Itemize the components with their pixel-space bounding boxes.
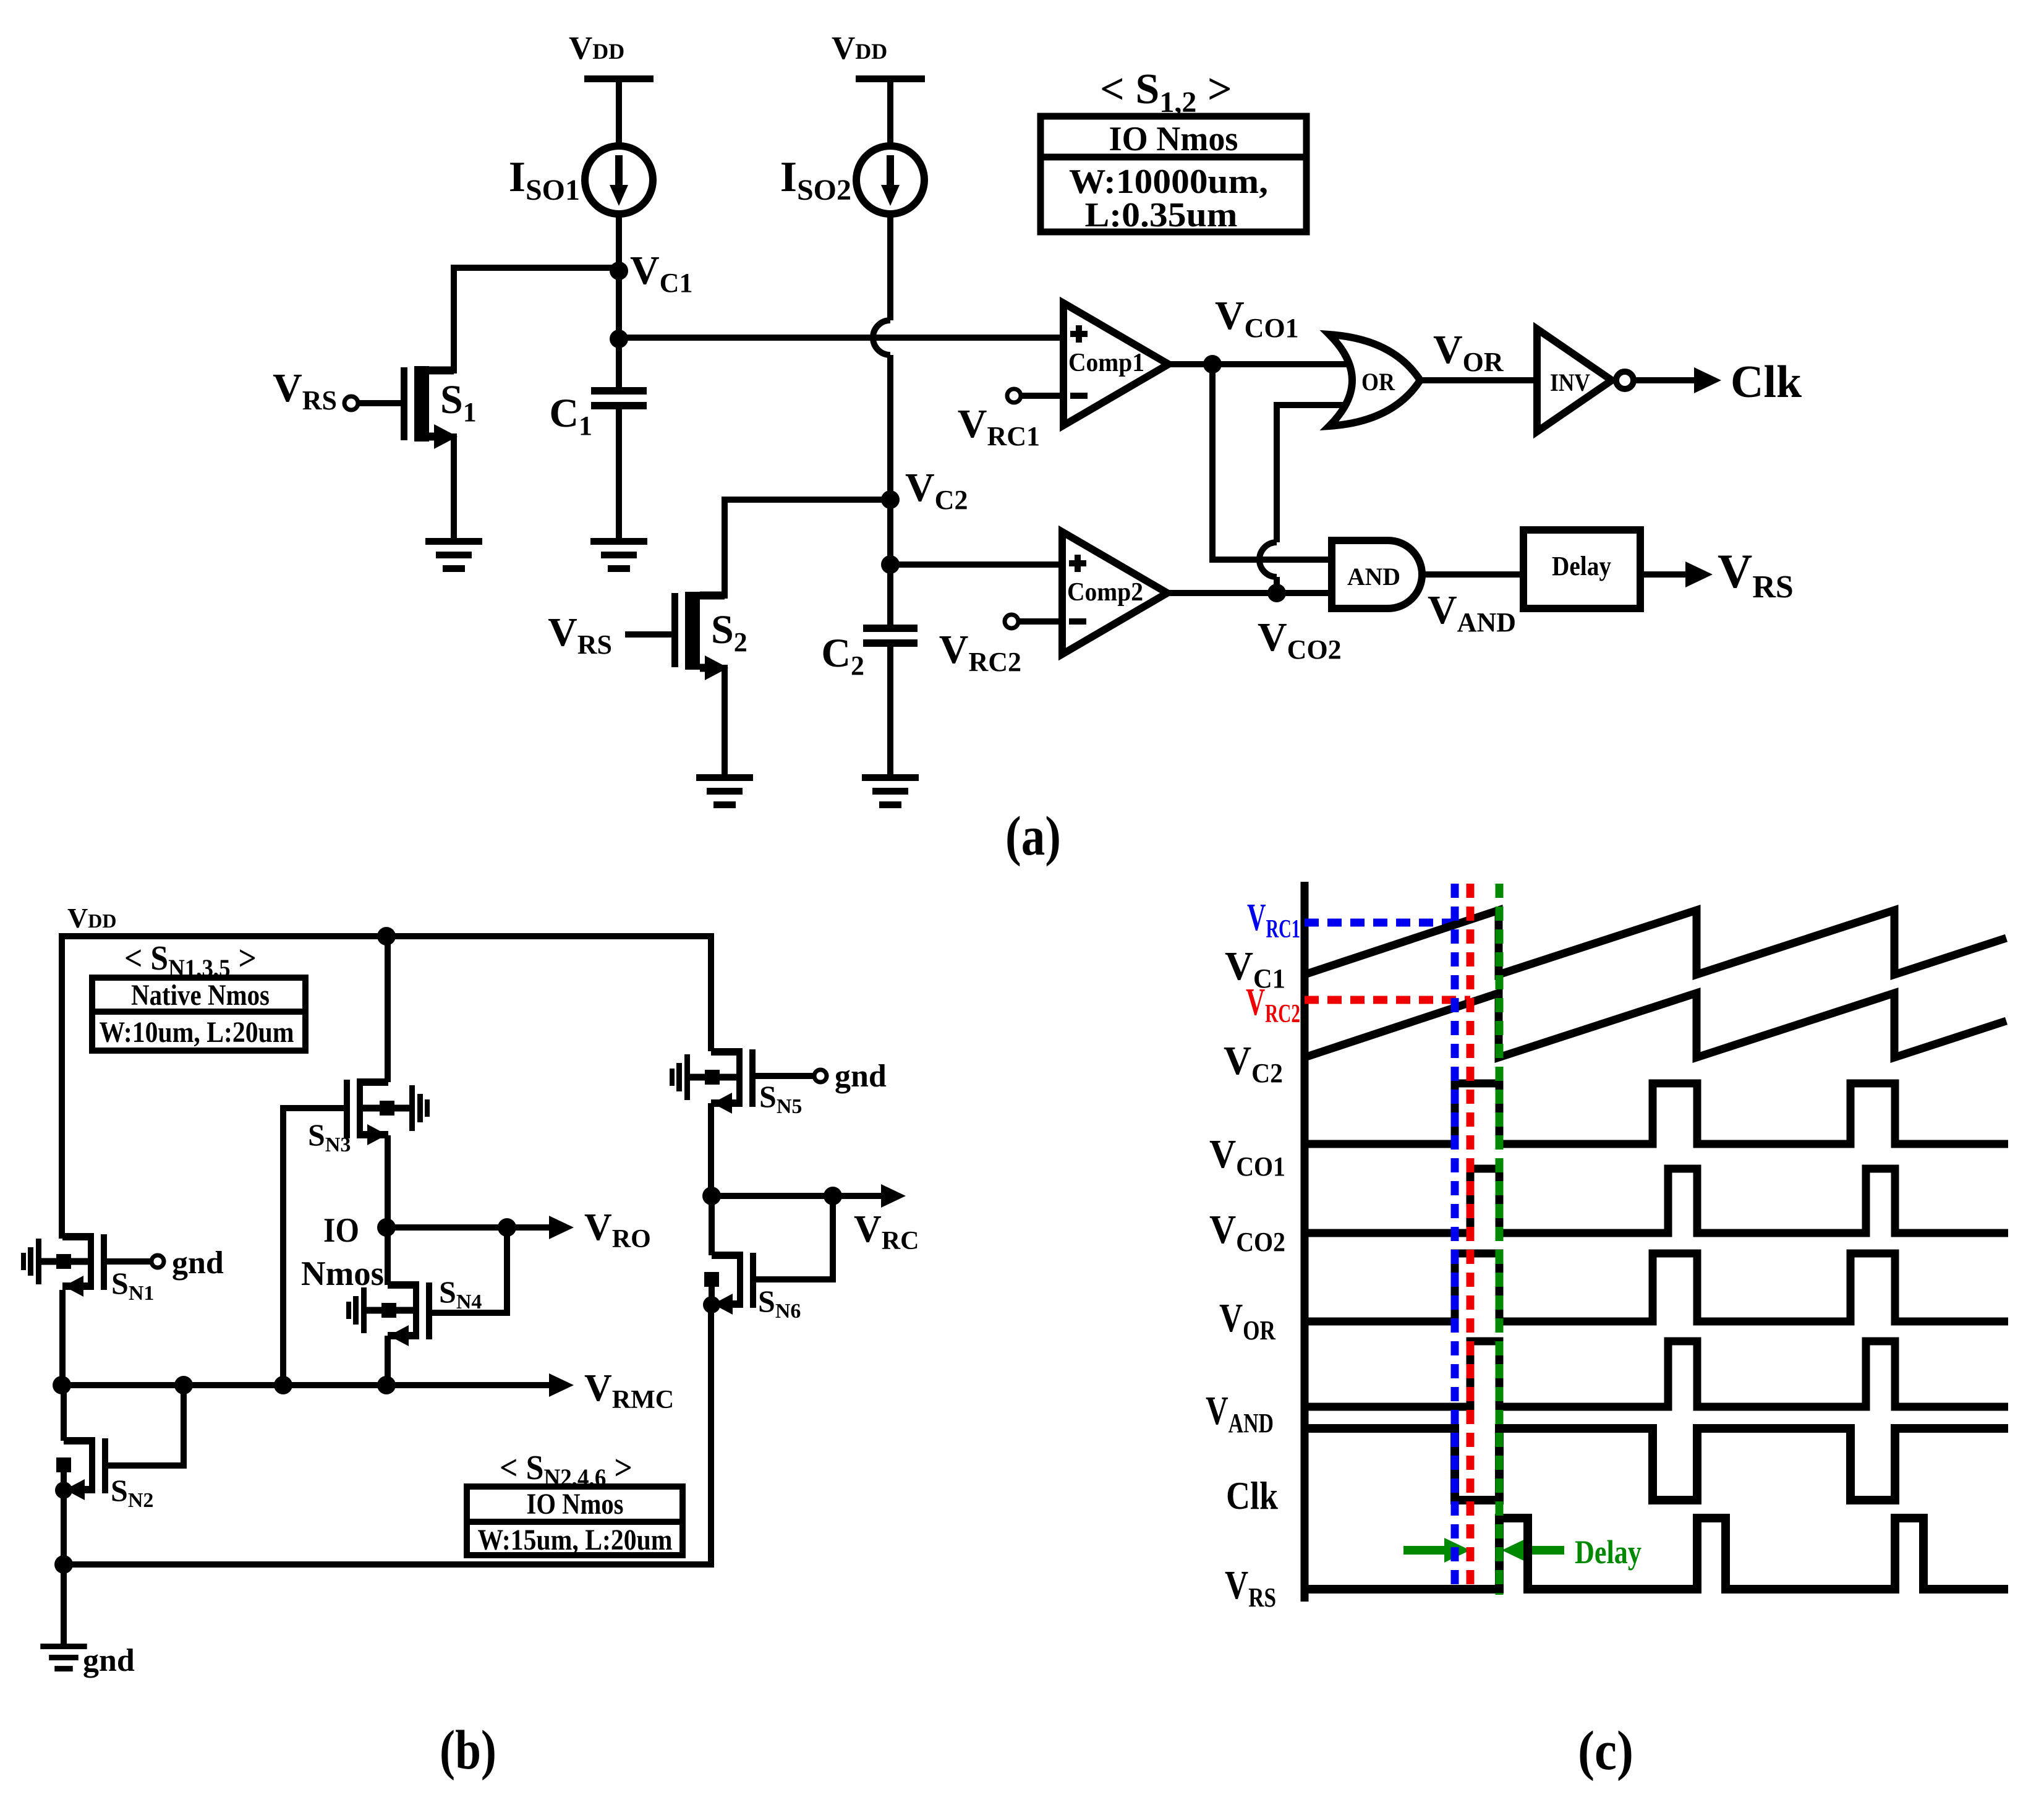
blue dashed time marker: [1451, 884, 1459, 1587]
svg-text:Native Nmos: Native Nmos: [131, 979, 270, 1012]
svg-text:OR: OR: [1361, 368, 1395, 396]
node VRO: [377, 1218, 396, 1237]
ground (S2): [696, 774, 753, 808]
svg-text:Comp1: Comp1: [1068, 349, 1144, 377]
VRC2 level dashed line (red): [1305, 996, 1470, 1004]
wire SN3 gate to VRMC rail: [283, 1108, 344, 1385]
node VOR / wire OR to INV: [1420, 327, 1537, 380]
svg-text:W:15um, L:20um: W:15um, L:20um: [478, 1524, 673, 1556]
output Clk: [1637, 357, 1802, 408]
wire SN5 drain from VDD rail: [708, 936, 714, 1051]
node VDD/SN3 drain junction: [377, 927, 396, 945]
wire SN4 gate up to VRO: [435, 1227, 507, 1313]
block Delay: [1523, 530, 1640, 608]
bottom ground rail wire: [64, 1308, 711, 1564]
waveform VRS: [1305, 1518, 2008, 1589]
svg-text:W:10000um,: W:10000um,: [1069, 163, 1268, 201]
waveform VC2 (sawtooth): [1305, 993, 2006, 1057]
node SN4 source / rail: [377, 1376, 396, 1394]
capacitor C1: [549, 339, 647, 541]
terminal VRC2: [939, 615, 1062, 677]
svg-text:gnd: gnd: [83, 1643, 135, 1678]
current source ISO2: [780, 146, 924, 214]
svg-text:L:0.35um: L:0.35um: [1085, 196, 1238, 234]
ground gnd (panel b): [40, 1564, 135, 1678]
capacitor C2: [821, 565, 918, 777]
wire VC1 down to C1 node: [616, 271, 622, 339]
inverter INV: [1537, 329, 1633, 432]
wire SN2 source to bottom rail: [61, 1490, 67, 1564]
VDD top rail wire: [62, 936, 711, 1235]
transistor S2: [548, 592, 747, 777]
comparator Comp1: [1063, 303, 1169, 425]
wire ISO2 down to VC2 (with hop over VC1 wire): [873, 214, 890, 500]
wire SN6 gate to VRC node: [756, 1196, 833, 1279]
svg-text:AND: AND: [1347, 563, 1400, 591]
power VDD rail symbol (ISO1 branch): [569, 30, 654, 146]
transistor SN2: [56, 1437, 153, 1512]
svg-text:IO Nmos: IO Nmos: [1109, 120, 1238, 158]
wire SN3 source down to VRO node: [385, 1135, 391, 1227]
wire VC2 to S2 drain: [725, 500, 890, 595]
wire VRO output: [386, 1216, 574, 1239]
node SN1 source / rail: [53, 1376, 71, 1394]
waveform VOR: [1305, 1253, 2008, 1321]
svg-text:(a): (a): [1005, 806, 1061, 867]
node VC1: [610, 248, 692, 298]
delay annotation arrows (green): [1403, 1538, 1564, 1563]
wire SN2 drain from rail: [61, 1385, 67, 1441]
node VC2/C2 junction: [881, 500, 900, 574]
wire SN4 source down to VRMC rail: [385, 1336, 391, 1385]
transistor SN4: [346, 1274, 482, 1346]
ground (C1): [590, 538, 647, 572]
green dashed time marker: [1496, 884, 1504, 1595]
transistor SN1: [21, 1233, 154, 1305]
node VCO2 (Comp2 output): [1167, 584, 1342, 665]
output VRS (delayed reset): [1640, 544, 1794, 605]
gate AND: [1332, 540, 1422, 608]
node VAND / wire AND to Delay: [1422, 574, 1523, 638]
svg-text:INV: INV: [1550, 369, 1590, 396]
power VDD rail symbol (ISO2 branch): [832, 30, 925, 146]
terminal gnd (SN5 gate): [759, 1059, 887, 1094]
waveform VAND: [1305, 1341, 2008, 1407]
wire SN2 gate to rail: [106, 1385, 184, 1466]
wire ISO1 to node VC1: [616, 214, 622, 272]
wire SN5 source down to VRC node: [708, 1103, 714, 1196]
transistor SN3: [308, 1078, 430, 1156]
waveform Clk (inverted pulses): [1305, 1428, 2008, 1500]
device size note box S1,2: [1041, 66, 1306, 234]
wire VC1 node to Comp1 + input: [619, 335, 1063, 341]
device size box IO Nmos: [467, 1487, 683, 1556]
svg-text:(c): (c): [1578, 1720, 1633, 1782]
svg-text:Comp2: Comp2: [1067, 578, 1143, 607]
node VC2: [881, 465, 968, 515]
transistor SN5: [670, 1048, 802, 1118]
red dashed time marker: [1467, 884, 1475, 1591]
node SN6 source/bulk: [703, 1296, 720, 1313]
node bottom rail left: [54, 1555, 73, 1574]
ground (C2): [862, 774, 919, 808]
svg-text:gnd: gnd: [172, 1245, 224, 1281]
node VCO1 (Comp1 output): [1169, 293, 1388, 373]
wire SN6 drain from VRC node: [709, 1196, 715, 1255]
wire SN1 source down to VRMC rail: [59, 1290, 66, 1385]
svg-text:Nmos: Nmos: [301, 1255, 384, 1293]
ground (S1): [425, 538, 482, 572]
svg-text:IO Nmos: IO Nmos: [527, 1488, 624, 1521]
VRMC rail wire: [62, 1373, 574, 1397]
label IO Nmos (device type note): [301, 1211, 384, 1293]
svg-text:W:10um, L:20um: W:10um, L:20um: [100, 1016, 294, 1049]
gate OR: [1329, 335, 1420, 426]
svg-text:Clk: Clk: [1226, 1474, 1278, 1517]
terminal gnd (SN1 gate): [110, 1245, 224, 1281]
wire VRC output: [712, 1184, 906, 1208]
svg-text:Delay: Delay: [1575, 1534, 1642, 1571]
transistor SN6: [704, 1252, 801, 1323]
svg-text:(b): (b): [440, 1720, 496, 1781]
wire VC1 to S1 drain: [454, 268, 619, 370]
current source ISO1: [509, 146, 653, 214]
node SN2 gate / rail: [174, 1376, 193, 1394]
wire VCO1 down to AND input: [1212, 364, 1332, 560]
wire SN3 drain: [385, 936, 391, 1082]
wire SN4 drain up to VRO node: [385, 1227, 391, 1285]
device size box Native Nmos: [92, 978, 305, 1051]
node SN3 gate / rail: [274, 1376, 292, 1394]
svg-text:gnd: gnd: [835, 1059, 887, 1094]
node VC1/C1 junction: [610, 330, 628, 348]
svg-text:Delay: Delay: [1552, 551, 1611, 581]
transistor S1: [273, 365, 477, 541]
terminal VRC1: [958, 389, 1063, 451]
svg-text:Clk: Clk: [1731, 357, 1802, 408]
timing axis: [1301, 882, 1309, 1602]
waveform VC1 (sawtooth): [1305, 910, 2006, 975]
comparator Comp2: [1062, 532, 1167, 654]
wire VCO2 up to OR input (with hop): [1259, 405, 1388, 593]
waveform VCO1: [1305, 1083, 2008, 1144]
wire VC2 node to Comp2 + input: [890, 561, 1062, 568]
waveform VCO2: [1305, 1169, 2008, 1233]
VRC1 level dashed line (blue): [1305, 919, 1455, 927]
node VRC: [702, 1187, 721, 1205]
node SN2 source/bulk: [55, 1482, 72, 1499]
svg-text:IO: IO: [323, 1211, 359, 1250]
